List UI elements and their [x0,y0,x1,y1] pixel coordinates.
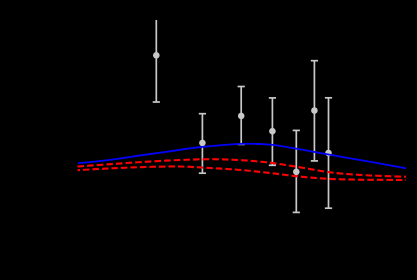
error bar 1 (top clipped, no top cap) [153,20,160,102]
error bar 7 [325,98,332,208]
error bar 5 [293,130,300,212]
red dashed curve (upper) [78,159,407,177]
data marker 4 [269,128,276,135]
error bar 4 [269,98,276,165]
data marker 3 [238,113,245,120]
data marker 6 [311,107,318,114]
error bar 2 [199,114,206,174]
data marker 7 [325,150,332,157]
data marker 5 [293,169,300,176]
red dashed curve (lower) [78,166,407,180]
blue solid model curve [78,144,406,168]
data marker 1 [153,52,160,59]
error bar 6 [311,61,318,161]
error bar 3 [238,87,245,145]
data marker 2 [199,140,206,147]
